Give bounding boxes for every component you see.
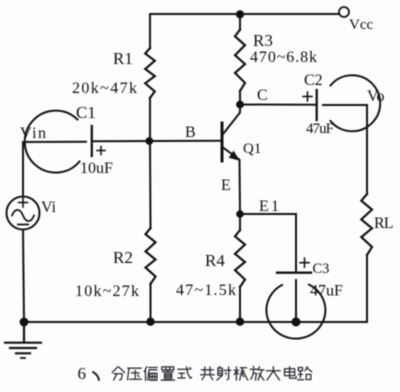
capacitor C3 [277,258,311,273]
label R3 [253,31,273,50]
label value 47~1.5k [176,282,236,299]
wire source to ground node [23,230,24,323]
caption ideographic comma [93,372,99,380]
wire R2 to bottom rail [150,284,152,322]
svg-text:10k~27k: 10k~27k [75,283,139,300]
node C junction [236,101,244,109]
resistor R1 [145,48,155,98]
wire emitter node E1 branch [240,214,296,271]
label value 10k~27k [75,283,139,300]
capacitor C1 [92,126,105,156]
wire node C to capacitor C2 [240,104,316,106]
svg-text:Vcc: Vcc [349,17,373,33]
resistor R3 [235,30,245,92]
wire R1 to node B [149,98,151,141]
svg-text:20k~47k: 20k~47k [72,80,137,97]
label E1 [259,198,279,215]
svg-text:10uF: 10uF [80,160,113,177]
wire R4 to bottom rail [239,287,241,322]
svg-text:R3: R3 [253,31,273,50]
wire C2 to right rail corner [323,105,367,194]
caption CJK text placeholder [112,366,312,380]
wire R1 rail top [149,14,151,48]
label value 47uF bottom [310,283,343,300]
svg-text:RL: RL [374,215,394,232]
svg-text:6: 6 [78,364,87,383]
svg-text:C: C [257,87,268,104]
label value 20k~47k [72,80,137,97]
label Q1 [243,141,261,157]
terminal Vcc [339,7,349,17]
svg-text:C3: C3 [313,261,330,277]
wire base from Vin corner to C1 [23,141,86,143]
svg-text:Vin: Vin [20,125,46,142]
node E1 junction [236,210,244,218]
label R1 [113,49,133,68]
annotation circle around C2 and Vo [331,75,381,131]
svg-text:Q1: Q1 [243,141,261,157]
wire R3 to node C [239,91,241,105]
label Vi [41,199,57,216]
node bottom R2 [146,318,154,326]
resistor RL [361,194,372,255]
node bottom R4 [236,318,244,326]
wire R4 rail top [239,214,241,230]
node bottom ground [20,318,29,327]
svg-text:R2: R2 [113,248,133,267]
svg-text:47uF: 47uF [306,121,334,137]
label Vo [367,88,385,105]
svg-text:R4: R4 [205,251,225,270]
label C1 [76,103,96,122]
wire bottom rail [24,321,367,323]
capacitor C2 [303,90,317,120]
node B junction [145,137,153,145]
annotation circle around C1 [25,111,80,173]
svg-text:R1: R1 [113,49,133,68]
node bottom C3 [292,317,301,326]
label value 470~6.8k [250,49,317,66]
ground [5,322,41,358]
label C3 [313,261,330,277]
wire C3 to bottom rail [295,280,297,322]
wire left rail Vin down to source [22,142,24,197]
resistor R4 [235,230,245,287]
label Vin [20,125,46,142]
transistor Q1 [222,105,240,215]
svg-text:C2: C2 [304,72,323,89]
svg-text:Vi: Vi [41,199,57,216]
label R4 [205,251,225,270]
wire RL to bottom rail [366,255,368,322]
node at top rail and R3 [236,10,244,18]
label R2 [113,248,133,267]
source Vi [7,197,40,230]
svg-text:47uF: 47uF [310,283,343,300]
svg-text:E: E [221,177,231,194]
wire R3 rail top [239,14,241,30]
wire C1 to transistor base [93,140,221,143]
label Vcc [349,17,373,33]
label value 10uF [80,160,113,177]
svg-text:470~6.8k: 470~6.8k [250,49,317,66]
wire R2 rail top [149,141,152,228]
label E [221,177,231,194]
label B [185,124,196,141]
label value 47uF top [306,121,334,137]
caption number 6 [78,364,87,383]
annotation circle around C3 [266,285,325,339]
svg-text:B: B [185,124,196,141]
label C2 [304,72,323,89]
svg-text:Vo: Vo [367,88,385,105]
label RL [374,215,394,232]
resistor R2 [146,228,156,284]
svg-text:C1: C1 [76,103,96,122]
label C [257,87,268,104]
wire top rail [151,13,339,15]
